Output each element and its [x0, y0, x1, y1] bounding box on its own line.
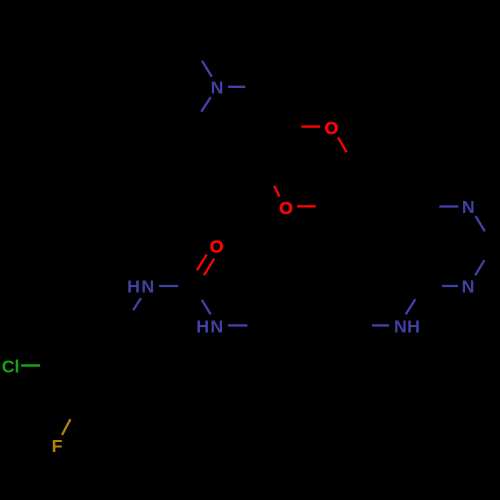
svg-text:N: N	[462, 197, 475, 217]
wire: carbonyl C=O double bond line 1	[197, 255, 207, 271]
svg-text:H: H	[127, 277, 140, 297]
wire: bond quinazoline N3 up-right to C2	[475, 260, 484, 275]
wire: bond N(CH3) to CH2 lower-left	[201, 97, 211, 112]
wire: bond urea HN right, to phenyl C	[228, 324, 247, 326]
svg-text:N: N	[210, 317, 223, 337]
wire: bond urea HN left, to carbonyl C	[159, 285, 178, 287]
wire: bond Cl to phenyl C	[21, 364, 40, 367]
wire: bond N(CH3) to CH2 right	[228, 86, 245, 88]
svg-text:N: N	[462, 277, 475, 297]
svg-text:N: N	[211, 78, 224, 98]
wire: bond urea HN left, down-left to phenyl	[133, 298, 141, 310]
svg-text:F: F	[52, 436, 63, 456]
wire: bond F to phenyl C	[62, 419, 70, 435]
wire: bond O2 right to ring C	[297, 205, 316, 207]
svg-text:N: N	[394, 317, 407, 337]
wire: bond quinazoline N1 left to C8a	[439, 205, 458, 207]
svg-text:H: H	[407, 317, 420, 337]
wire: bond quinazoline N1 down-right to C2	[476, 216, 485, 231]
wire: bond O1 left to CH2	[301, 125, 320, 127]
svg-text:H: H	[196, 317, 209, 337]
svg-text:Cl: Cl	[2, 357, 20, 377]
wire: bond urea HN right, up-left to carbonyl C	[202, 300, 211, 315]
svg-text:O: O	[324, 118, 338, 138]
wire: bond NH up-right to quinazoline C4	[406, 299, 416, 314]
svg-text:O: O	[210, 237, 224, 257]
wire: carbonyl C=O double bond line 2	[204, 259, 214, 276]
wire: bond O1 down-right to ring C	[338, 137, 347, 152]
wire: bond N(CH3) to methyl	[202, 61, 212, 77]
wire: bond O2 up-left to CH2	[274, 186, 279, 197]
wire: bond NH left to phenyl C	[372, 324, 389, 326]
svg-text:O: O	[279, 198, 293, 218]
wire: bond quinazoline N3 left to C4	[442, 285, 458, 287]
svg-text:N: N	[141, 277, 154, 297]
